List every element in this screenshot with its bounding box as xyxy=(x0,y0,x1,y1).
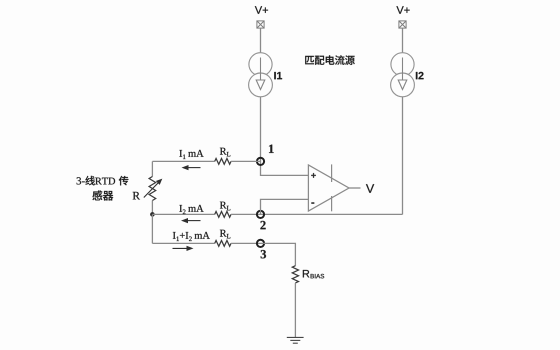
V+ terminal box (right) xyxy=(399,21,406,28)
label I2 xyxy=(416,72,424,79)
resistor RL row 1 xyxy=(215,159,231,165)
op-amp U1 xyxy=(308,165,349,211)
wire RTD column to RL row 3 xyxy=(152,242,214,244)
wire V+ terminal to current source I2 xyxy=(402,28,404,53)
wire V+ terminal to current source I1 xyxy=(260,28,262,53)
label 3 xyxy=(261,250,266,258)
label RBIAS xyxy=(303,270,309,277)
wire node 2 to I2 branch xyxy=(261,213,403,215)
label V output xyxy=(366,184,374,193)
wire RL row 2 to node 2 xyxy=(231,213,261,215)
label I2 mA xyxy=(179,205,182,212)
node 1 xyxy=(257,158,264,165)
current source I2 xyxy=(391,53,414,76)
node 2 xyxy=(257,211,264,218)
current arrow row 2 xyxy=(185,220,201,222)
ground xyxy=(287,337,304,343)
current arrow row 1 xyxy=(186,167,201,169)
V+ terminal box (left) xyxy=(257,21,264,28)
label 2 xyxy=(260,221,265,229)
op-amp output wire xyxy=(349,187,361,189)
wire RL row 3 to node 3 xyxy=(231,242,261,244)
label: 3-wire RTD sensor (line 2) xyxy=(92,190,113,200)
op-amp supply pins xyxy=(331,164,333,182)
resistor RBIAS xyxy=(292,266,298,283)
wire I2 down to row 2 net xyxy=(402,97,404,215)
resistor RL row 2 xyxy=(215,212,231,218)
resistor RL row 3 xyxy=(215,241,231,247)
current source I1 xyxy=(249,53,272,76)
net label V+ (left) xyxy=(255,6,268,14)
wire RL row 1 to node 1 xyxy=(231,160,261,162)
label: 3-wire RTD sensor (line 1) xyxy=(77,176,129,186)
node 3 xyxy=(257,240,264,247)
label RL row 3 xyxy=(220,230,227,237)
wire I1 through node 1 to non-inverting input xyxy=(261,97,309,176)
wire RTD top to RL row 1 xyxy=(152,160,214,162)
label 1 xyxy=(269,145,274,153)
label: matched current sources 匹配电流源 xyxy=(305,55,355,65)
wire junction to RL row 2 xyxy=(152,213,214,215)
current arrow row 3 xyxy=(173,247,190,249)
wire node 2 to inverting input xyxy=(261,199,309,214)
wire junction down to row 3 xyxy=(151,214,153,243)
wire RBIAS to ground xyxy=(294,283,296,337)
junction RTD bottom / row 2 xyxy=(150,212,155,217)
wire node 3 to RBIAS xyxy=(261,243,296,265)
RTD sensor R (variable resistor) xyxy=(151,161,153,176)
label RL row 2 xyxy=(220,202,227,209)
net label V+ (right) xyxy=(396,6,409,14)
label R xyxy=(133,192,140,199)
label I1+I2 mA xyxy=(173,232,176,239)
label RL row 1 xyxy=(220,148,227,155)
label I1 xyxy=(274,72,282,79)
label I1 mA xyxy=(179,150,182,157)
